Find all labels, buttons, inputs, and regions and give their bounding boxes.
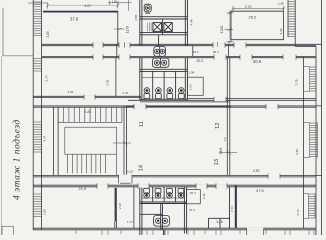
svg-text:4.58: 4.58 bbox=[134, 15, 138, 21]
window hatch left staircase bbox=[33, 122, 41, 152]
window hatch right mid bbox=[304, 67, 316, 92]
dim cross room12 wall bbox=[219, 152, 237, 154]
svg-text:13: 13 bbox=[214, 159, 220, 165]
svg-text:4.37: 4.37 bbox=[43, 135, 47, 141]
svg-text:3.26: 3.26 bbox=[216, 220, 223, 224]
bottom outer wall bbox=[33, 227, 316, 229]
svg-text:1П 4: 1П 4 bbox=[190, 191, 197, 195]
left outer wall outer line bbox=[32, 0, 34, 230]
door corridor bottom wall 2 bbox=[119, 56, 130, 59]
wc stall door line bbox=[142, 77, 185, 79]
core left wall bbox=[139, 0, 141, 46]
door corridor top wall 1 bbox=[93, 44, 103, 47]
top-left room thick top wall bbox=[43, 11, 118, 13]
connector right y46 bbox=[295, 45, 316, 47]
kitchen bottom wall bbox=[140, 31, 187, 33]
window hatch left top bbox=[33, 2, 41, 36]
window hatch right bottom bbox=[304, 194, 315, 219]
right outermost boundary bbox=[321, 0, 323, 235]
left outer wall inner line bbox=[41, 0, 43, 230]
svg-text:1.56: 1.56 bbox=[189, 84, 193, 90]
svg-text:11/3: 11/3 bbox=[124, 25, 129, 33]
door hall bottom wall 2 bbox=[268, 175, 280, 178]
wc toilets row top bbox=[144, 88, 184, 99]
svg-text:20.2: 20.2 bbox=[197, 59, 204, 63]
bottom band left verticals bbox=[115, 188, 117, 222]
toilet top wc bbox=[144, 4, 151, 13]
svg-text:12: 12 bbox=[215, 123, 221, 129]
washroom/wc divider wall bbox=[140, 68, 187, 70]
entrance door bottom wall bbox=[247, 228, 264, 231]
svg-text:4.07: 4.07 bbox=[85, 4, 92, 8]
svg-text:27.9: 27.9 bbox=[256, 188, 265, 193]
hall bottom wall bbox=[33, 174, 321, 176]
door hall top wall 1 bbox=[134, 105, 146, 108]
window hatch left mid room bbox=[33, 59, 41, 72]
stall dividers bottom bbox=[152, 187, 154, 202]
svg-text:1.47: 1.47 bbox=[123, 91, 129, 95]
corridor bottom wall (double) bbox=[42, 55, 316, 57]
window hatch right room12 bbox=[304, 123, 318, 158]
top-right room walls bbox=[231, 10, 284, 12]
top-left room right wall bbox=[117, 11, 119, 44]
svg-text:2.10: 2.10 bbox=[118, 203, 122, 209]
dim tick top-left room right wall bbox=[114, 28, 124, 30]
kitchen top wall bottom core bbox=[140, 213, 163, 215]
svg-text:1.77: 1.77 bbox=[127, 220, 133, 224]
stalls bottom wall bbox=[140, 201, 187, 203]
door corridor bottom wall 3 bbox=[214, 56, 226, 59]
svg-text:B1 4: B1 4 bbox=[213, 50, 219, 54]
door hall top wall 2 bbox=[266, 105, 278, 108]
svg-text:47 4: 47 4 bbox=[189, 208, 195, 212]
door bottom rooms wall 3 bbox=[196, 185, 207, 188]
dim vertical right sliver bbox=[229, 10, 231, 43]
sink unit bottom kitchen bbox=[154, 215, 170, 226]
svg-text:14: 14 bbox=[139, 164, 145, 171]
mid rooms divider wall bbox=[115, 58, 117, 97]
wc stall dividers bbox=[152, 71, 154, 99]
balcony top-left bbox=[3, 8, 33, 56]
svg-text:5.28: 5.28 bbox=[85, 110, 92, 114]
sink unit lower bbox=[152, 58, 169, 67]
svg-text:12/3: 12/3 bbox=[219, 25, 224, 34]
shaft box bottom bbox=[187, 190, 201, 204]
mid-left room bottom wall bbox=[33, 95, 141, 97]
room11 room12 divider bbox=[226, 58, 228, 176]
stove 2 bbox=[164, 23, 172, 32]
core left wall bottom bbox=[139, 187, 141, 230]
door bottom rooms wall 2 bbox=[138, 185, 149, 188]
door mid-right band wall bbox=[214, 98, 226, 101]
wc toilets row bottom bbox=[144, 188, 184, 198]
lobby divider bbox=[158, 35, 160, 46]
svg-text:5.19: 5.19 bbox=[127, 169, 133, 173]
svg-text:1.50: 1.50 bbox=[112, 0, 118, 4]
right wall line x316 bbox=[315, 46, 317, 235]
mid-right band walls bbox=[187, 98, 316, 100]
balcony bottom-left bbox=[2, 226, 13, 238]
svg-text:13/4: 13/4 bbox=[219, 148, 223, 155]
door bottom rooms wall 3b bbox=[216, 185, 227, 188]
lower flight treads bbox=[67, 154, 69, 173]
wc stalls bottom wall bbox=[140, 98, 187, 100]
svg-text:4.9: 4.9 bbox=[223, 137, 227, 141]
dim marks top center bbox=[108, 2, 132, 4]
dim line top-right room bbox=[233, 8, 284, 10]
room11 left wall bbox=[123, 106, 125, 175]
svg-text:20.2: 20.2 bbox=[249, 15, 258, 20]
kitchen divider bottom bbox=[160, 204, 162, 230]
svg-text:81 4: 81 4 bbox=[193, 50, 199, 54]
landing box bbox=[65, 127, 117, 154]
svg-text:2.74: 2.74 bbox=[230, 206, 234, 212]
bottom rooms top wall bbox=[33, 184, 316, 186]
core right wall bbox=[184, 0, 186, 46]
core right wall bottom bbox=[183, 187, 185, 230]
top right exterior window hatch bbox=[288, 2, 295, 37]
door hall bottom center with swing bbox=[119, 175, 133, 178]
sink unit upper bbox=[154, 47, 166, 57]
wc stall door line bottom bbox=[142, 197, 185, 199]
dim marks above left wall bbox=[28, 2, 48, 4]
svg-text:4.90: 4.90 bbox=[253, 169, 260, 173]
dim line top-left room bbox=[48, 4, 118, 6]
svg-text:2.29: 2.29 bbox=[279, 28, 283, 34]
counter hatch bbox=[148, 23, 152, 32]
top right exterior wall lines bbox=[287, 0, 289, 37]
door corridor bottom wall 4 bbox=[240, 56, 252, 59]
door corridor bottom wall 1 bbox=[93, 56, 103, 59]
small wall x208 bbox=[208, 218, 210, 228]
svg-text:2.70: 2.70 bbox=[245, 5, 252, 9]
left scan edge line bbox=[0, 56, 2, 235]
svg-text:1.40: 1.40 bbox=[202, 193, 206, 199]
bottom-right room left wall thick bbox=[235, 186, 237, 229]
svg-text:2.90: 2.90 bbox=[43, 209, 47, 215]
door corridor top wall 2 bbox=[119, 44, 130, 47]
shaft box right of stalls bbox=[187, 77, 203, 95]
svg-text:1.98: 1.98 bbox=[189, 71, 195, 75]
upper flight treads bbox=[57, 107, 59, 122]
svg-text:2.74: 2.74 bbox=[45, 75, 49, 81]
svg-text:2.81: 2.81 bbox=[106, 79, 110, 85]
door bottom rooms wall 1 bbox=[97, 185, 108, 188]
washroom right wall bbox=[184, 58, 186, 101]
core wall extensions below bbox=[162, 230, 164, 235]
right rooms wall bbox=[303, 57, 305, 228]
svg-text:20.9: 20.9 bbox=[253, 59, 262, 64]
bottom dim ticks bbox=[101, 230, 103, 235]
dim cross room11 wall bbox=[113, 142, 131, 144]
window hatch left bottom room bbox=[33, 194, 41, 217]
svg-text:2.73: 2.73 bbox=[296, 209, 300, 215]
wc top room wall bbox=[140, 16, 187, 18]
corridor top wall (double) bbox=[42, 43, 322, 45]
door corridor top wall 3 bbox=[213, 44, 225, 47]
svg-text:2.75: 2.75 bbox=[294, 79, 298, 85]
door mid-left room bottom wall bbox=[84, 96, 95, 99]
svg-text:4.46: 4.46 bbox=[295, 149, 299, 155]
door corridor bottom wall 5 bbox=[283, 56, 296, 59]
svg-text:21.9: 21.9 bbox=[79, 186, 88, 191]
stove 1 bbox=[153, 23, 162, 32]
stove divider bbox=[162, 19, 164, 35]
svg-text:11: 11 bbox=[139, 121, 145, 127]
staircase outer sliver line bbox=[53, 107, 55, 175]
svg-text:2.38: 2.38 bbox=[278, 1, 284, 5]
svg-text:4.91: 4.91 bbox=[68, 90, 74, 94]
washroom left wall bbox=[139, 58, 141, 101]
svg-text:4 этаж 1 подъезд: 4 этаж 1 подъезд bbox=[12, 119, 23, 200]
hall top wall thick bbox=[33, 105, 321, 107]
svg-text:37.9: 37.9 bbox=[70, 17, 79, 22]
door corridor top wall 4 bbox=[234, 44, 246, 47]
svg-text:2.05: 2.05 bbox=[46, 31, 50, 37]
svg-text:4.48: 4.48 bbox=[190, 19, 194, 25]
